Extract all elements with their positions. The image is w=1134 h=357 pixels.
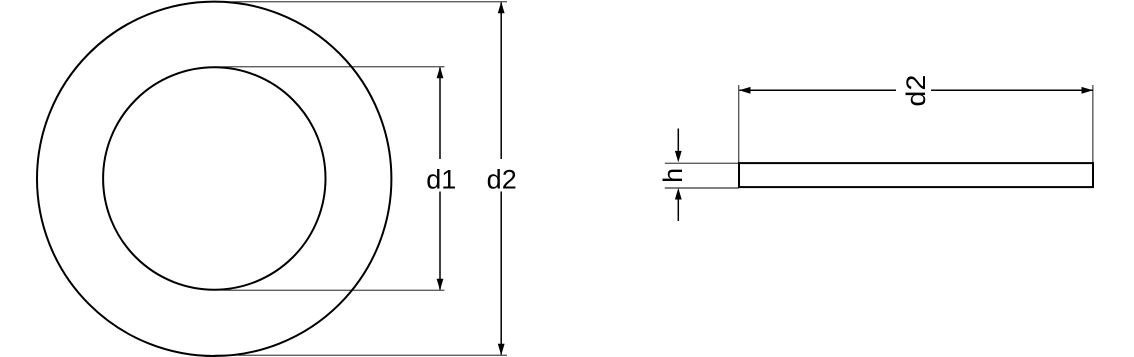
svg-text:d2: d2	[487, 164, 517, 194]
inner circle (washer hole, front view)	[103, 67, 325, 289]
svg-text:d1: d1	[426, 164, 456, 194]
arrowhead h up	[675, 188, 682, 200]
dimension line d1 upper segment	[439, 68, 441, 160]
extension line, side view right vertical	[1092, 85, 1094, 163]
svg-text:h: h	[658, 168, 688, 183]
extension line, side view left vertical	[738, 85, 740, 163]
arrowhead d1 down	[437, 279, 444, 291]
arrowhead d2 left	[739, 87, 751, 94]
arrowhead d1 up	[437, 67, 444, 79]
dimension line h upper	[677, 129, 679, 153]
dimension line d1 lower segment	[439, 192, 441, 290]
dimension line h lower	[677, 200, 679, 222]
extension line, side view bottom edge left	[665, 187, 739, 189]
svg-text:d2: d2	[901, 75, 931, 107]
arrowhead h down	[675, 151, 682, 163]
dimension line d2 (front view) lower segment	[500, 192, 502, 355]
arrowhead d2 up	[498, 2, 505, 14]
extension line, outer circle top	[215, 1, 508, 3]
extension line, outer circle bottom	[215, 354, 508, 356]
dimension line d2 (front view) upper segment	[500, 3, 502, 160]
washer side view rectangle	[739, 163, 1093, 187]
arrowhead d2 down	[498, 344, 505, 356]
dimension line d2 (side view) left segment	[740, 89, 897, 91]
dimension line d2 (side view) right segment	[931, 89, 1093, 91]
outer circle (washer outside diameter, front view)	[37, 2, 391, 356]
arrowhead d2 right	[1082, 87, 1094, 94]
extension line, inner circle top	[215, 66, 445, 68]
extension line, inner circle bottom	[215, 289, 445, 291]
extension line, side view top edge left	[665, 162, 739, 164]
